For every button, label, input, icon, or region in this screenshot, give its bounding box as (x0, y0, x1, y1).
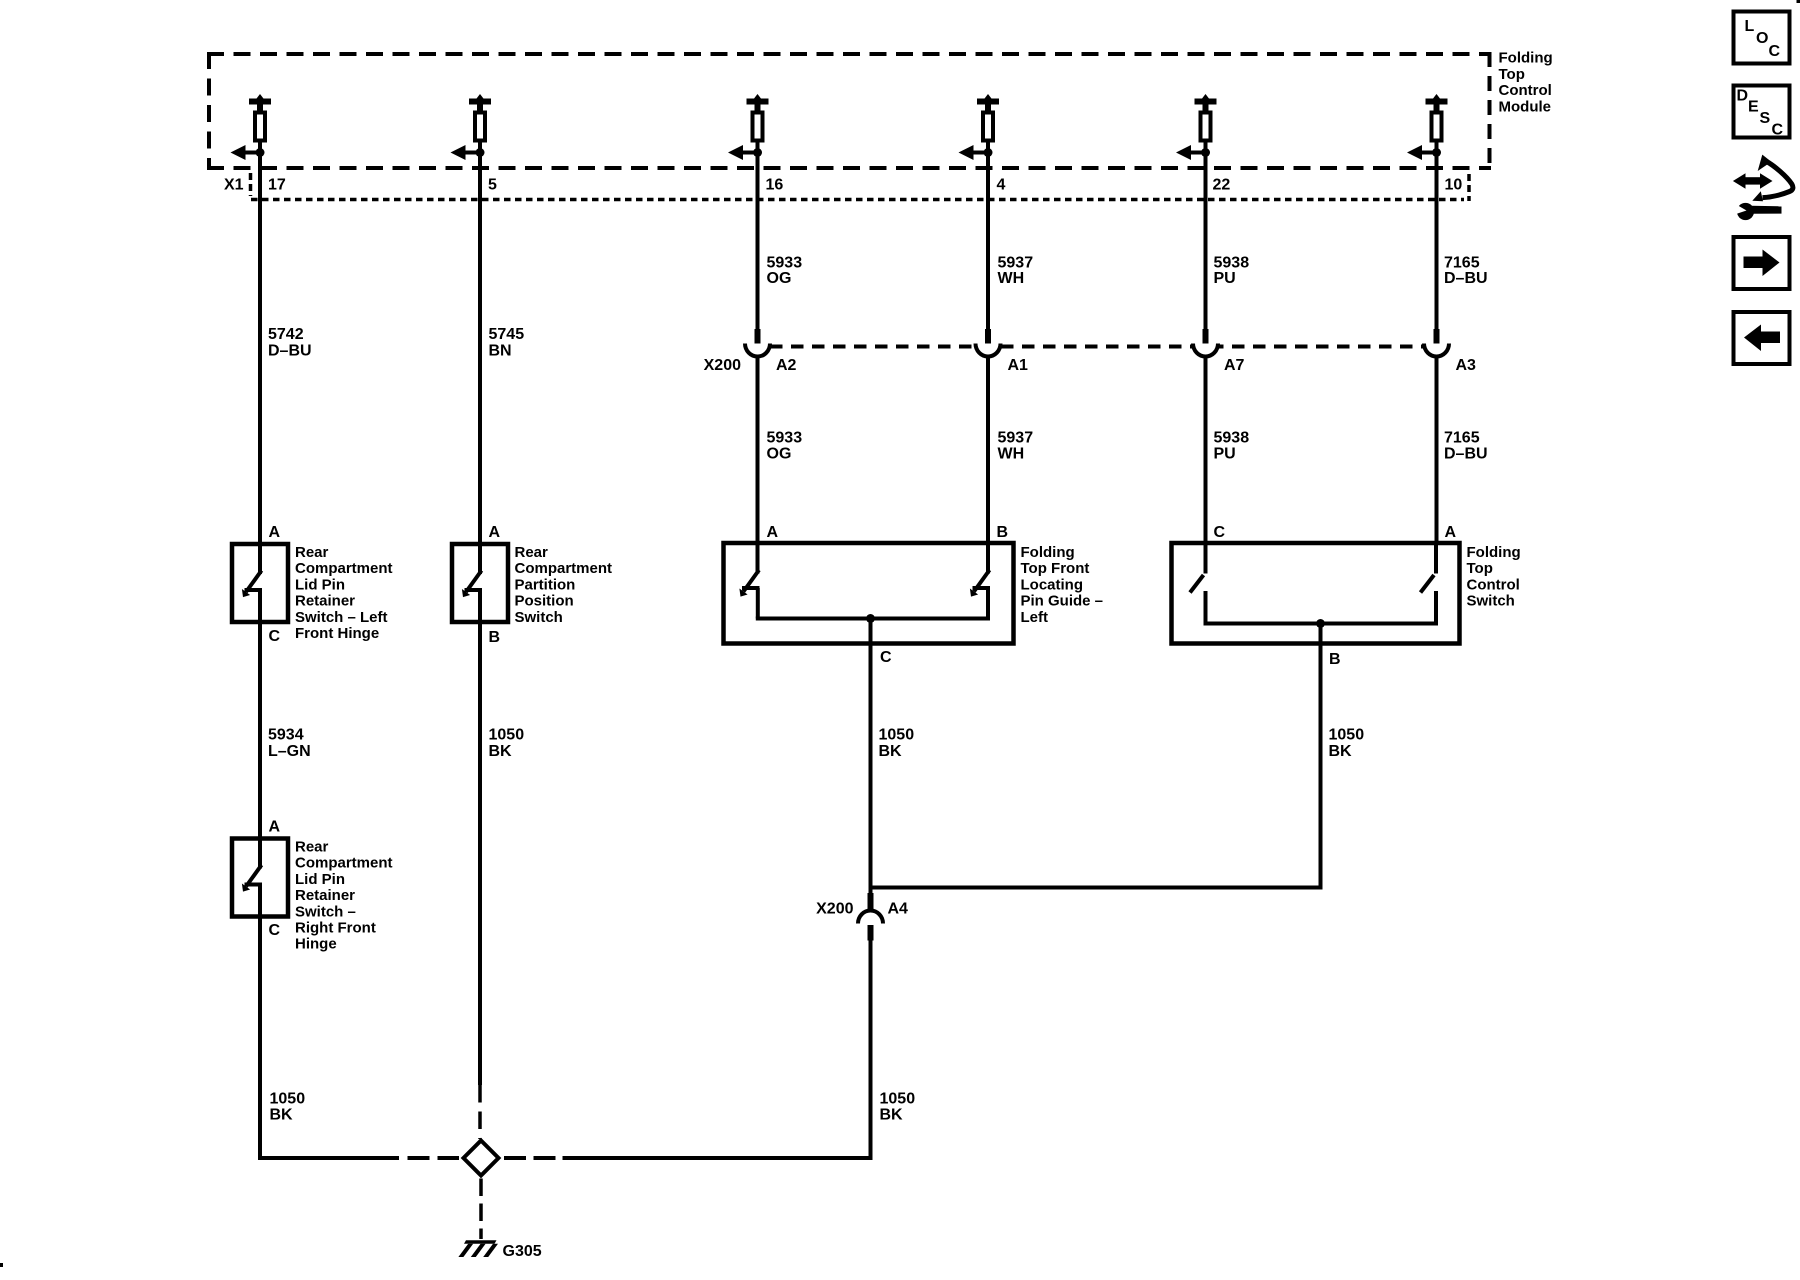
svg-text:5745: 5745 (489, 326, 525, 343)
svg-text:PU: PU (1214, 446, 1236, 463)
svg-text:22: 22 (1213, 177, 1231, 194)
svg-text:A4: A4 (888, 901, 909, 918)
wire 5938 PU col5 lower (1204, 356, 1208, 545)
svg-text:BK: BK (880, 1107, 904, 1124)
connector X200 A4 (858, 893, 883, 941)
switch S5 Rear Compartment Lid Pin Retainer Switch - Right Front Hinge (232, 839, 288, 919)
svg-text:5938: 5938 (1214, 255, 1250, 272)
module pin 5 symbol (451, 94, 492, 160)
label 5742 D-BU (268, 326, 312, 360)
label 1050 BK col1 (270, 1091, 306, 1124)
splice diamond G305 junction (464, 1141, 499, 1176)
switch S3 Folding Top Front Locating Pin Guide - Left (724, 543, 1014, 645)
svg-text:Rear: Rear (515, 544, 549, 561)
page corner mark top right (1797, 0, 1800, 3)
svg-text:Locating: Locating (1021, 576, 1084, 593)
svg-text:Control: Control (1499, 82, 1552, 99)
icon back arrow (1734, 312, 1790, 364)
svg-text:5: 5 (488, 177, 497, 194)
svg-text:Top Front: Top Front (1021, 560, 1090, 577)
svg-text:7165: 7165 (1444, 255, 1480, 272)
icon next arrow (1734, 237, 1790, 289)
svg-text:C: C (1769, 43, 1781, 60)
svg-text:Lid Pin: Lid Pin (295, 576, 345, 593)
label 5938 PU upper (1214, 255, 1250, 288)
wire 1050 BK col2 (478, 622, 482, 1085)
wire 1050 BK col5/6 (871, 644, 1323, 890)
svg-text:Compartment: Compartment (515, 560, 613, 577)
label 1050 BK col2 (489, 727, 525, 761)
svg-text:A1: A1 (1008, 357, 1029, 374)
connector X200 A1 (976, 329, 1001, 357)
svg-text:5938: 5938 (1214, 430, 1250, 447)
svg-text:C: C (1214, 524, 1226, 541)
svg-text:A7: A7 (1224, 357, 1245, 374)
svg-text:Compartment: Compartment (295, 855, 393, 872)
svg-text:C: C (269, 922, 281, 939)
switch S4 Folding Top Control Switch (1172, 543, 1460, 645)
svg-text:C: C (1772, 122, 1784, 139)
dashed wire to ground (479, 1179, 483, 1240)
svg-text:A: A (269, 524, 281, 541)
svg-text:17: 17 (268, 177, 286, 194)
label 5933 OG upper (767, 255, 803, 288)
wire 7165 D-BU col6 upper (1435, 154, 1439, 330)
switch S1 Rear Compartment Lid Pin Retainer Switch - Left Front Hinge (232, 544, 288, 624)
wire 5934 L-GN col1 (258, 622, 262, 840)
label 7165 D-BU lower (1444, 430, 1488, 463)
svg-text:5742: 5742 (268, 326, 304, 343)
svg-text:1050: 1050 (880, 1091, 916, 1108)
wire 5933 OG col3 upper (756, 154, 760, 330)
svg-text:Folding: Folding (1499, 50, 1553, 67)
svg-text:1050: 1050 (879, 727, 915, 744)
page corner mark bottom left (0, 1263, 3, 1267)
svg-text:Switch: Switch (515, 609, 563, 626)
svg-text:Front Hinge: Front Hinge (295, 625, 379, 642)
svg-text:OG: OG (767, 270, 792, 287)
Folding Top Control Module dashed border (207, 52, 1491, 170)
svg-text:B: B (489, 629, 501, 646)
svg-text:5937: 5937 (998, 255, 1034, 272)
icon DESC (1734, 86, 1790, 139)
label Folding Top Control Switch (1467, 544, 1521, 610)
icon diagnostic arrows and wrench (1733, 155, 1793, 220)
svg-text:WH: WH (998, 270, 1025, 287)
connector X1 strip (224, 173, 1469, 201)
svg-text:16: 16 (766, 177, 784, 194)
wire col3/4 lower to ground rail (869, 941, 873, 1161)
label 5745 BN (489, 326, 525, 360)
svg-text:O: O (1756, 30, 1768, 47)
connector X200 A3 (1424, 329, 1449, 357)
svg-text:G305: G305 (503, 1243, 542, 1260)
svg-text:10: 10 (1445, 177, 1463, 194)
svg-text:E: E (1748, 99, 1759, 116)
svg-text:Rear: Rear (295, 544, 329, 561)
module pin 16 symbol (728, 94, 769, 160)
svg-text:Top: Top (1467, 560, 1493, 577)
label 1050 BK col3/4 lower (880, 1091, 916, 1124)
svg-text:D–BU: D–BU (268, 343, 312, 360)
svg-text:5934: 5934 (268, 727, 304, 744)
svg-text:S: S (1760, 110, 1771, 127)
svg-text:L: L (1745, 18, 1755, 35)
label 5934 L-GN (268, 727, 311, 761)
svg-text:BK: BK (879, 743, 903, 760)
ground rail wire (258, 1156, 873, 1160)
svg-text:BK: BK (1329, 743, 1353, 760)
svg-text:X1: X1 (224, 177, 244, 194)
wire 5933 OG col3 lower (756, 356, 760, 545)
label 1050 BK col5/6 (1329, 727, 1365, 761)
svg-text:Partition: Partition (515, 576, 576, 593)
wire 5937 WH col4 lower (986, 356, 990, 545)
svg-text:Hinge: Hinge (295, 936, 337, 953)
connector X200 A7 (1193, 329, 1218, 357)
svg-text:BK: BK (270, 1107, 294, 1124)
svg-text:B: B (1329, 651, 1341, 668)
svg-text:BK: BK (489, 743, 513, 760)
svg-text:OG: OG (767, 446, 792, 463)
svg-text:A: A (489, 524, 501, 541)
module pin 4 symbol (959, 94, 1000, 160)
connector X200 A2 (745, 329, 770, 357)
svg-text:5933: 5933 (767, 430, 803, 447)
label 5938 PU lower (1214, 430, 1250, 463)
icon LOC (1734, 12, 1790, 64)
svg-text:D–BU: D–BU (1444, 270, 1488, 287)
svg-text:BN: BN (489, 343, 512, 360)
wire 7165 D-BU col6 lower (1435, 356, 1439, 545)
svg-text:X200: X200 (816, 901, 853, 918)
label 5933 OG lower (767, 430, 803, 463)
label Rear Compartment Partition Position Switch (515, 544, 613, 626)
label 7165 D-BU upper (1444, 255, 1488, 288)
svg-text:L–GN: L–GN (268, 743, 311, 760)
svg-text:Pin Guide –: Pin Guide – (1021, 593, 1104, 610)
module pin 17 (X1-17) symbol (231, 94, 272, 160)
svg-text:Folding: Folding (1021, 544, 1075, 561)
svg-text:Module: Module (1499, 98, 1552, 115)
svg-text:5937: 5937 (998, 430, 1034, 447)
svg-text:Retainer: Retainer (295, 887, 355, 904)
svg-text:5933: 5933 (767, 255, 803, 272)
label 5937 WH upper (998, 255, 1034, 288)
wire col1 lower to ground rail (258, 917, 262, 1161)
wire 5937 WH col4 upper (986, 154, 990, 330)
svg-text:X200: X200 (704, 357, 741, 374)
ground G305 symbol (458, 1240, 498, 1257)
svg-text:A: A (767, 524, 779, 541)
svg-text:WH: WH (998, 446, 1025, 463)
svg-text:Right Front: Right Front (295, 920, 376, 937)
wire col2 dashed lower (478, 1085, 482, 1139)
svg-text:Position: Position (515, 593, 574, 610)
svg-text:Rear: Rear (295, 839, 329, 856)
label Rear Compartment Lid Pin Retainer Switch - Right Front Hinge (295, 839, 393, 953)
svg-text:7165: 7165 (1444, 430, 1480, 447)
svg-text:Top: Top (1499, 66, 1525, 83)
wire 5742 D-BU col1 (258, 154, 262, 546)
module pin 22 symbol (1176, 94, 1217, 160)
switch S2 Rear Compartment Partition Position Switch (452, 544, 508, 624)
svg-text:A3: A3 (1456, 357, 1477, 374)
svg-text:1050: 1050 (489, 727, 525, 744)
svg-text:4: 4 (997, 177, 1006, 194)
svg-text:Switch – Left: Switch – Left (295, 609, 388, 626)
svg-text:A: A (269, 819, 281, 836)
svg-text:B: B (997, 524, 1009, 541)
svg-text:1050: 1050 (270, 1091, 306, 1108)
svg-text:Compartment: Compartment (295, 560, 393, 577)
svg-text:Lid Pin: Lid Pin (295, 871, 345, 888)
wire 1050 BK col3/4 (869, 644, 873, 912)
label Folding Top Front Locating Pin Guide - Left (1021, 544, 1104, 626)
svg-text:C: C (880, 649, 892, 666)
svg-text:Switch: Switch (1467, 593, 1515, 610)
label Rear Compartment Lid Pin Retainer Switch - Left Front Hinge (295, 544, 393, 642)
svg-text:C: C (269, 628, 281, 645)
wire 5938 PU col5 upper (1204, 154, 1208, 330)
svg-text:Folding: Folding (1467, 544, 1521, 561)
wire 5745 BN col2 (478, 154, 482, 546)
X200 dashed bus line (770, 345, 1424, 349)
svg-text:PU: PU (1214, 270, 1236, 287)
module name: Folding Top Control Module (1499, 50, 1553, 116)
svg-text:A2: A2 (776, 357, 797, 374)
svg-text:Switch –: Switch – (295, 903, 356, 920)
svg-text:Control: Control (1467, 576, 1520, 593)
label 1050 BK col3/4 (879, 727, 915, 761)
svg-text:Retainer: Retainer (295, 593, 355, 610)
label 5937 WH lower (998, 430, 1034, 463)
svg-text:D: D (1737, 88, 1749, 105)
svg-text:Left: Left (1021, 609, 1049, 626)
module pin 10 symbol (1407, 94, 1448, 160)
svg-text:1050: 1050 (1329, 727, 1365, 744)
svg-text:D–BU: D–BU (1444, 446, 1488, 463)
svg-text:A: A (1445, 524, 1457, 541)
